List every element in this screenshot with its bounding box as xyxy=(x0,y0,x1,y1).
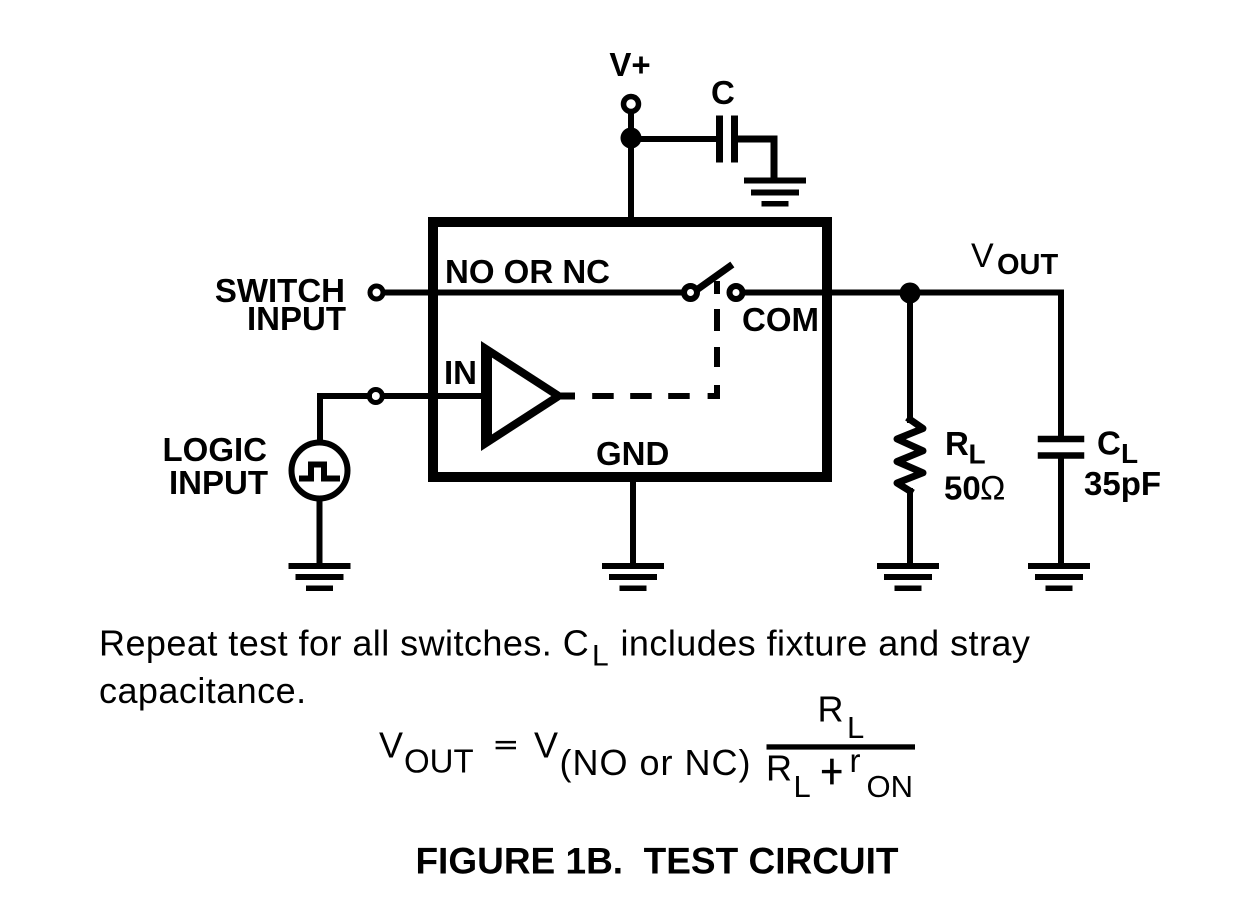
label CL xyxy=(1097,425,1138,470)
svg-text:Ω: Ω xyxy=(980,470,1005,508)
resistor RL xyxy=(897,420,923,492)
buffer output stub xyxy=(561,393,575,400)
label RL xyxy=(945,425,986,470)
junction output node xyxy=(900,283,921,304)
wire switch to output xyxy=(744,290,1061,296)
DUT box U1 xyxy=(433,222,827,477)
svg-text:GND: GND xyxy=(596,435,669,472)
label 50 ohm xyxy=(944,470,1005,508)
svg-text:R: R xyxy=(945,425,969,462)
svg-text:FIGURE 1B. TEST CIRCUIT: FIGURE 1B. TEST CIRCUIT xyxy=(415,841,898,882)
LOGIC INPUT label xyxy=(163,431,269,501)
wire V+ terminal to box top xyxy=(628,112,634,221)
svg-text:IN: IN xyxy=(444,354,477,391)
ground (capacitor C) xyxy=(744,178,806,207)
svg-text:35pF: 35pF xyxy=(1084,465,1161,502)
equals sign xyxy=(496,741,516,744)
switch S1 throw contact xyxy=(730,286,743,299)
wire capacitor CL to ground xyxy=(1058,458,1064,565)
svg-text:R: R xyxy=(818,689,844,730)
svg-text:NO OR NC: NO OR NC xyxy=(445,253,610,290)
svg-text:C: C xyxy=(711,74,735,111)
terminal logic input xyxy=(369,390,382,403)
wire output to capacitor CL xyxy=(1058,293,1064,437)
switch S1 arm xyxy=(698,267,730,290)
svg-text:L: L xyxy=(969,439,986,470)
ground (logic input) xyxy=(289,563,351,591)
switch S1 pole contact xyxy=(684,286,697,299)
svg-text:LOGIC: LOGIC xyxy=(163,431,268,468)
capacitor CL xyxy=(1041,439,1081,456)
wire logic terminal to buffer xyxy=(383,393,479,399)
svg-text:L: L xyxy=(847,710,864,745)
ground (CL) xyxy=(1028,563,1090,591)
svg-text:COM: COM xyxy=(742,301,819,338)
formula fraction bar xyxy=(767,744,916,749)
wire box GND pin to ground xyxy=(630,480,636,565)
node VOUT label xyxy=(971,237,1059,281)
svg-text:capacitance.: capacitance. xyxy=(99,670,307,711)
wire pulse source to ground xyxy=(317,501,323,565)
pulse symbol xyxy=(299,465,340,479)
wire logic source to terminal xyxy=(320,396,369,441)
wire output node down to resistor RL xyxy=(907,293,913,420)
SWITCH INPUT label xyxy=(215,272,346,337)
svg-text:50: 50 xyxy=(944,470,981,507)
junction V+ / C xyxy=(621,128,642,149)
svg-text:R: R xyxy=(766,748,792,789)
ground (RL) xyxy=(877,563,939,591)
svg-text:V: V xyxy=(534,725,558,766)
wire junction to capacitor C xyxy=(631,136,716,142)
svg-text:L: L xyxy=(592,640,609,673)
svg-text:INPUT: INPUT xyxy=(169,464,268,501)
wire switch input to switch pole xyxy=(384,290,681,296)
terminal switch input xyxy=(370,286,383,299)
svg-text:INPUT: INPUT xyxy=(247,300,346,337)
ground (GND pin) xyxy=(602,563,664,591)
note text line 1 xyxy=(99,623,1030,673)
buffer amplifier U2 xyxy=(481,341,566,451)
svg-text:ON: ON xyxy=(867,769,914,804)
svg-text:V: V xyxy=(379,725,403,766)
capacitor C xyxy=(720,119,735,159)
svg-text:L: L xyxy=(794,769,811,804)
svg-text:Repeat test for all switches.: Repeat test for all switches. C xyxy=(99,623,589,664)
svg-text:V+: V+ xyxy=(609,46,650,83)
dashed actuator link switch to buffer xyxy=(592,281,717,396)
svg-text:r: r xyxy=(850,742,861,779)
wire capacitor C to ground xyxy=(738,139,774,178)
svg-text:OUT: OUT xyxy=(997,249,1059,281)
svg-text:C: C xyxy=(1097,425,1121,462)
pulse source V1 xyxy=(292,443,348,499)
svg-text:includes fixture and stray: includes fixture and stray xyxy=(610,623,1030,664)
wire resistor RL to ground xyxy=(907,491,913,565)
formula VOUT = V(NO or NC) RL/(RL+rON) xyxy=(379,689,915,805)
svg-text:(NO or NC): (NO or NC) xyxy=(560,742,752,783)
plus sign xyxy=(822,770,842,773)
terminal V+ xyxy=(624,97,639,112)
svg-text:OUT: OUT xyxy=(404,743,474,780)
svg-text:V: V xyxy=(971,237,994,275)
